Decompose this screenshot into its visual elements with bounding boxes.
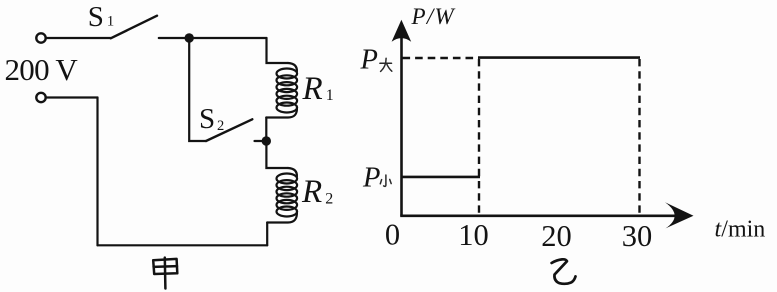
label P-small [362, 162, 391, 193]
y-axis arrowhead [392, 20, 412, 42]
wire R1 bottom to node B [265, 118, 267, 142]
svg-text:1: 1 [326, 87, 334, 104]
dashed vertical at t=30 [638, 59, 640, 215]
svg-text:R: R [301, 174, 322, 210]
svg-text:S: S [88, 1, 104, 33]
svg-text:0: 0 [385, 218, 400, 252]
node B junction dot [262, 136, 271, 145]
label P-large [360, 44, 392, 75]
terminal top-left [36, 33, 45, 42]
svg-text:P/W: P/W [411, 4, 456, 29]
label S1 [88, 1, 115, 33]
label t/min [715, 217, 766, 243]
terminal bottom-left [36, 93, 45, 102]
svg-text:200 V: 200 V [5, 52, 79, 87]
label S2 [199, 103, 224, 135]
x-axis t [400, 215, 681, 218]
svg-text:20: 20 [541, 219, 572, 253]
wire terminal to S1 pivot [46, 37, 111, 39]
label R1 [302, 71, 334, 107]
wire to terminal bottom-left [46, 96, 98, 98]
svg-text:/min: /min [721, 217, 765, 243]
switch S2 blade [206, 119, 252, 141]
wire S2 stub to node B [255, 140, 267, 142]
solid level P-small 0..10 [402, 176, 480, 179]
node A junction dot [185, 33, 194, 42]
svg-text:S: S [199, 103, 215, 135]
svg-text:R: R [302, 71, 323, 107]
x-axis arrowhead [665, 202, 694, 228]
svg-text:2: 2 [325, 191, 333, 208]
svg-text:10: 10 [458, 218, 489, 252]
wire node A down to S2 [189, 38, 206, 141]
wire node B down to R2 [266, 141, 288, 168]
svg-text:2: 2 [217, 118, 224, 134]
svg-text:30: 30 [622, 219, 653, 253]
solid segment P-large 10..30 [478, 56, 640, 59]
label jia (甲) hand-drawn [153, 258, 177, 289]
svg-text:P: P [360, 44, 378, 75]
wire S1 to node A [159, 37, 267, 39]
resistor R2 coil [267, 168, 297, 223]
wire top corner down to R1 [267, 38, 289, 63]
left vertical wire [96, 98, 98, 246]
svg-text:1: 1 [107, 14, 115, 30]
label yi (乙) hand-drawn [552, 259, 576, 283]
wire R2 bottom to bottom rail [266, 223, 268, 246]
svg-text:P: P [362, 162, 380, 193]
label R2 [301, 174, 333, 210]
dashed vertical at t=10 [478, 59, 480, 215]
dashed level P-large [403, 57, 480, 59]
y-axis P [400, 37, 403, 216]
label P/W [411, 4, 456, 29]
resistor R1 coil [266, 63, 297, 118]
switch S1 blade [111, 16, 157, 39]
bottom rail wire [98, 244, 268, 246]
